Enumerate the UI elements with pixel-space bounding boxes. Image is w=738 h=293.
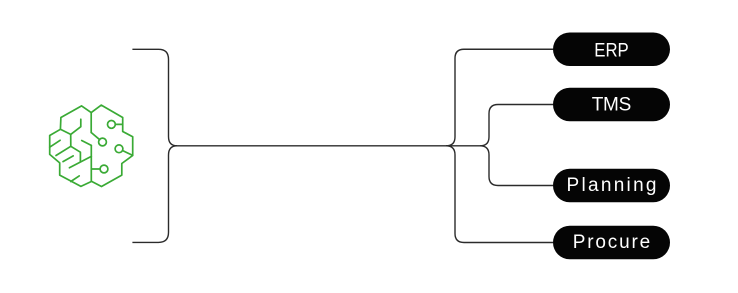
circuit node C1	[108, 121, 116, 129]
maze diagonal to divider	[82, 141, 92, 146]
circuit line C2	[91, 133, 100, 140]
circuit node C2	[99, 138, 107, 146]
maze stub upper	[71, 119, 81, 134]
wire to ERP	[446, 49, 553, 146]
maze bend	[71, 146, 81, 161]
maze edge	[60, 129, 70, 146]
brain icon	[50, 105, 133, 186]
maze long diagonal	[69, 156, 91, 167]
node TMS	[553, 88, 670, 122]
left brace bottom	[132, 146, 177, 243]
maze left mid	[56, 146, 71, 155]
brain outline	[50, 105, 133, 186]
svg-text:TMS: TMS	[592, 95, 632, 116]
wire to Procure	[446, 146, 553, 243]
divider lower	[90, 145, 92, 181]
node ERP	[553, 33, 670, 67]
svg-text:ERP: ERP	[594, 41, 629, 62]
node Procure	[553, 226, 670, 260]
circuit node C4	[100, 165, 108, 173]
divider top	[90, 113, 92, 133]
maze left small	[50, 140, 60, 147]
wire to Planning	[480, 146, 553, 186]
circuit line C3	[123, 151, 133, 156]
circuit line C1	[115, 123, 122, 125]
node Planning	[553, 169, 670, 203]
left brace top	[132, 49, 177, 146]
maze left lower	[63, 156, 73, 162]
main wire	[177, 145, 481, 147]
wire to TMS	[480, 105, 553, 146]
circuit line C4	[91, 168, 100, 170]
maze bottom twig	[71, 176, 79, 182]
circuit node C3	[115, 145, 123, 153]
